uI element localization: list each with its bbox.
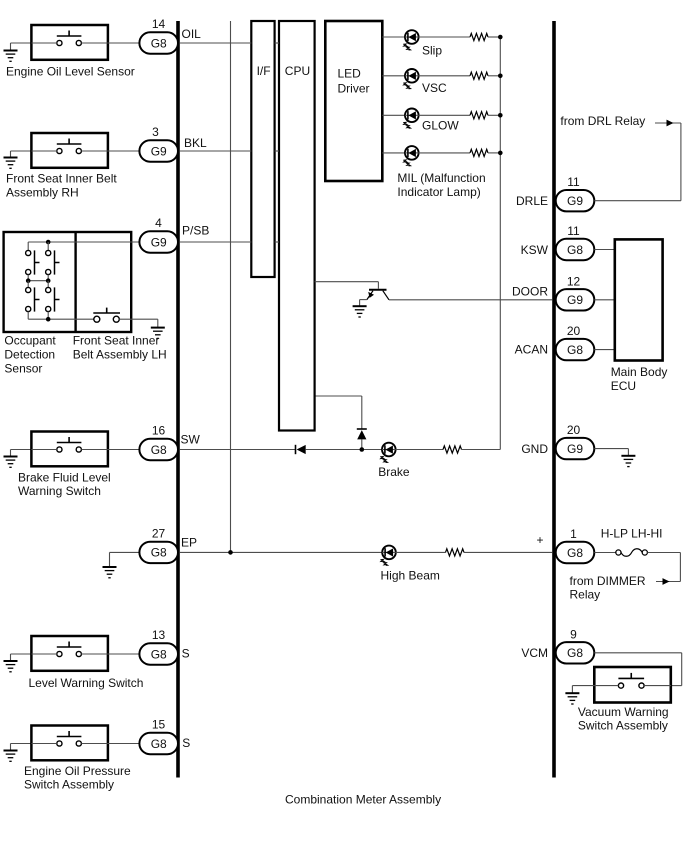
svg-text:+: + (536, 533, 543, 547)
svg-text:MIL (Malfunction: MIL (Malfunction (397, 171, 485, 185)
svg-text:G9: G9 (151, 144, 167, 158)
svg-text:15: 15 (152, 718, 166, 732)
svg-text:EP: EP (181, 536, 197, 550)
svg-text:G8: G8 (151, 546, 167, 560)
svg-text:CPU: CPU (285, 64, 310, 78)
svg-text:BKL: BKL (184, 136, 207, 150)
svg-text:13: 13 (152, 628, 166, 642)
svg-text:G8: G8 (151, 443, 167, 457)
svg-text:Engine Oil Level Sensor: Engine Oil Level Sensor (6, 65, 135, 79)
svg-text:1: 1 (570, 527, 577, 541)
svg-text:H-LP LH-HI: H-LP LH-HI (601, 527, 663, 541)
svg-text:Relay: Relay (570, 588, 601, 602)
svg-text:Brake Fluid Level: Brake Fluid Level (18, 471, 111, 485)
svg-text:20: 20 (567, 423, 581, 437)
svg-text:Detection: Detection (4, 348, 55, 362)
svg-text:20: 20 (567, 324, 581, 338)
svg-text:GND: GND (521, 442, 548, 456)
svg-text:3: 3 (152, 125, 159, 139)
svg-text:Belt Assembly LH: Belt Assembly LH (73, 348, 167, 362)
svg-text:VSC: VSC (422, 81, 447, 95)
svg-text:Switch Assembly: Switch Assembly (24, 778, 114, 792)
svg-text:G9: G9 (567, 442, 583, 456)
svg-text:12: 12 (567, 274, 581, 288)
svg-text:G8: G8 (567, 546, 583, 560)
svg-text:4: 4 (155, 216, 162, 230)
svg-text:Brake: Brake (378, 465, 410, 479)
svg-text:ECU: ECU (611, 379, 636, 393)
svg-text:9: 9 (570, 627, 577, 641)
svg-text:Indicator Lamp): Indicator Lamp) (397, 185, 480, 199)
svg-text:G8: G8 (151, 647, 167, 661)
svg-text:Front Seat Inner Belt: Front Seat Inner Belt (6, 172, 117, 186)
svg-text:Level Warning Switch: Level Warning Switch (29, 676, 144, 690)
svg-text:I/F: I/F (257, 64, 271, 78)
svg-text:G9: G9 (567, 293, 583, 307)
svg-text:SW: SW (181, 433, 201, 447)
svg-text:11: 11 (567, 224, 580, 238)
svg-text:Sensor: Sensor (4, 362, 42, 376)
svg-text:G9: G9 (151, 235, 167, 249)
svg-text:S: S (182, 647, 190, 661)
svg-text:Warning Switch: Warning Switch (18, 484, 101, 498)
svg-text:High Beam: High Beam (381, 569, 440, 583)
svg-text:DOOR: DOOR (512, 285, 548, 299)
svg-text:Occupant: Occupant (4, 334, 56, 348)
svg-text:Switch Assembly: Switch Assembly (578, 719, 668, 733)
svg-text:Engine Oil Pressure: Engine Oil Pressure (24, 764, 131, 778)
svg-text:G8: G8 (567, 646, 583, 660)
svg-text:Assembly RH: Assembly RH (6, 186, 79, 200)
svg-text:KSW: KSW (521, 243, 549, 257)
svg-text:11: 11 (567, 175, 580, 189)
svg-text:G8: G8 (567, 243, 583, 257)
svg-text:VCM: VCM (521, 646, 548, 660)
svg-text:P/SB: P/SB (182, 224, 209, 238)
svg-text:Vacuum Warning: Vacuum Warning (578, 705, 669, 719)
svg-text:Front Seat Inner: Front Seat Inner (73, 334, 160, 348)
svg-text:ACAN: ACAN (515, 343, 548, 357)
svg-text:from DIMMER: from DIMMER (570, 574, 646, 588)
svg-text:G9: G9 (567, 194, 583, 208)
svg-text:G8: G8 (151, 737, 167, 751)
svg-text:27: 27 (152, 526, 166, 540)
svg-text:Combination Meter Assembly: Combination Meter Assembly (285, 793, 441, 807)
svg-text:16: 16 (152, 424, 166, 438)
svg-text:Slip: Slip (422, 44, 442, 58)
svg-text:Main Body: Main Body (611, 365, 668, 379)
svg-text:OIL: OIL (182, 27, 202, 41)
svg-text:S: S (182, 736, 190, 750)
svg-text:GLOW: GLOW (422, 119, 459, 133)
svg-text:from DRL Relay: from DRL Relay (560, 114, 645, 128)
svg-text:DRLE: DRLE (516, 194, 548, 208)
svg-text:G8: G8 (567, 343, 583, 357)
svg-text:LED: LED (338, 66, 362, 80)
svg-text:G8: G8 (151, 36, 167, 50)
svg-text:Driver: Driver (338, 82, 370, 96)
svg-text:14: 14 (152, 17, 166, 31)
